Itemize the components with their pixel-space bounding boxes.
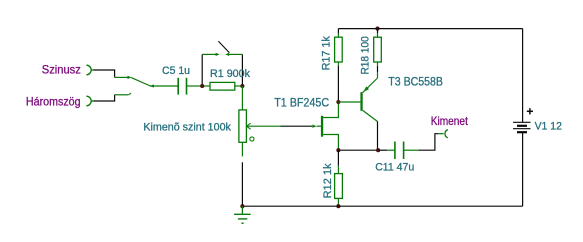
svg-text:T1 BF245C: T1 BF245C [274, 97, 329, 110]
svg-text:R17 1k: R17 1k [320, 36, 332, 71]
svg-text:C5 1u: C5 1u [162, 65, 190, 77]
svg-text:T3 BC558B: T3 BC558B [388, 75, 443, 88]
svg-text:R18 100: R18 100 [360, 36, 372, 74]
svg-text:Háromszög: Háromszög [26, 94, 81, 108]
svg-text:C11 47u: C11 47u [375, 162, 414, 174]
svg-text:V1 12: V1 12 [535, 121, 562, 133]
svg-text:Szinusz: Szinusz [42, 62, 81, 76]
svg-text:Kimenet: Kimenet [431, 114, 469, 128]
svg-text:R12 1k: R12 1k [322, 163, 334, 198]
svg-text:Kimenõ szint 100k: Kimenõ szint 100k [143, 121, 231, 133]
svg-text:R1 900k: R1 900k [210, 68, 250, 80]
